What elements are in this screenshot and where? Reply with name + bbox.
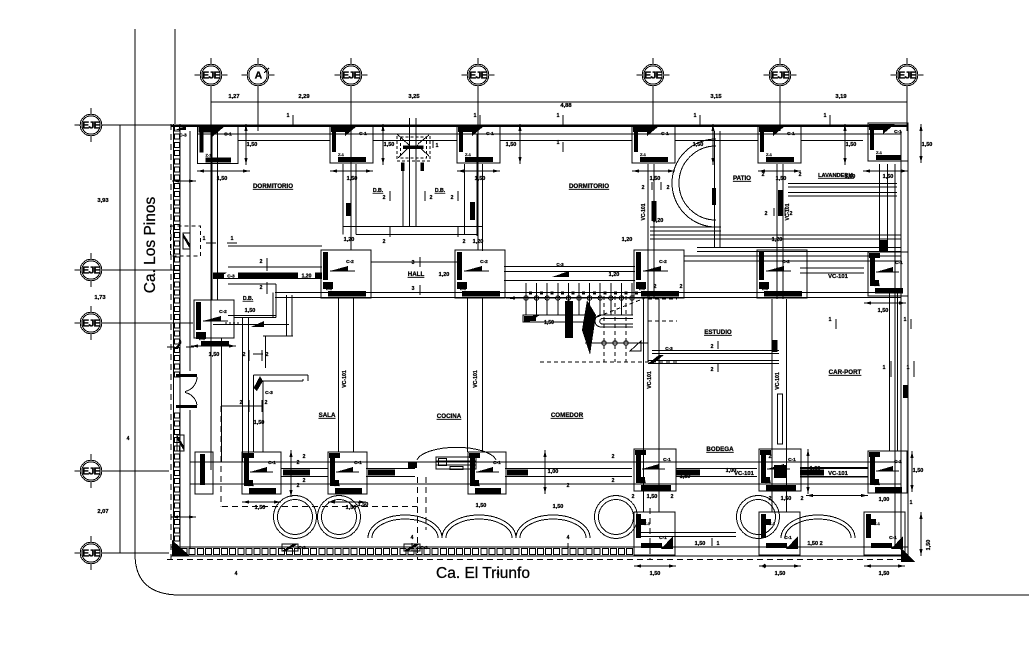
svg-text:C-3: C-3 bbox=[265, 390, 273, 396]
kitchen window arch bbox=[417, 447, 496, 460]
column C-2 hall axis 6 bbox=[757, 250, 807, 298]
svg-text:Z-1: Z-1 bbox=[465, 152, 472, 157]
column C-2 hall axis 4 bbox=[455, 250, 505, 298]
svg-text:1,50: 1,50 bbox=[879, 571, 890, 577]
svg-text:Z-1: Z-1 bbox=[874, 481, 881, 486]
patio east wall black fill bbox=[778, 190, 791, 220]
svg-text:1,50: 1,50 bbox=[926, 540, 932, 551]
stair flight side wall bbox=[523, 315, 595, 322]
column C-1 top row axis 4 bbox=[457, 125, 500, 163]
grid bubble EJE at (211,75) bbox=[195, 58, 228, 92]
svg-text:1,50: 1,50 bbox=[680, 474, 691, 480]
wall bbox=[243, 317, 249, 462]
svg-text:Ca. El Triunfo: Ca. El Triunfo bbox=[436, 565, 530, 582]
svg-text:Z-1: Z-1 bbox=[640, 152, 647, 157]
dimension line left bbox=[94, 125, 126, 553]
svg-text:1,20: 1,20 bbox=[439, 272, 450, 278]
svg-text:EJE: EJE bbox=[82, 466, 100, 478]
svg-text:Ca. Los Pinos: Ca. Los Pinos bbox=[142, 197, 159, 294]
dim 1,50 right of axis5 top column bbox=[711, 124, 714, 165]
hall north wall east of stairs bbox=[684, 255, 901, 257]
svg-text:C-1: C-1 bbox=[224, 132, 232, 138]
beam segments with fill bbox=[281, 469, 328, 477]
svg-text:VC-101: VC-101 bbox=[828, 471, 848, 477]
svg-text:2: 2 bbox=[711, 367, 714, 373]
wall bbox=[880, 164, 888, 251]
svg-text:1,50: 1,50 bbox=[254, 420, 265, 426]
svg-text:1,50: 1,50 bbox=[255, 505, 266, 511]
svg-text:1: 1 bbox=[231, 236, 234, 242]
svg-text:C-1: C-1 bbox=[661, 131, 669, 137]
tick marks left wall bbox=[167, 346, 175, 348]
dim 1,50 right of axis6 top column bbox=[843, 124, 846, 165]
svg-text:3,19: 3,19 bbox=[835, 94, 847, 100]
dim right of bodega column bbox=[806, 449, 809, 494]
svg-text:3,15: 3,15 bbox=[710, 94, 722, 100]
stair direction arrow bbox=[506, 296, 515, 299]
column C-1 bottom axis 5 bbox=[634, 449, 676, 491]
hatched block wall (bottom) bbox=[171, 547, 640, 556]
svg-text:C-1: C-1 bbox=[787, 131, 795, 137]
svg-text:VC-101: VC-101 bbox=[828, 274, 848, 280]
svg-text:2: 2 bbox=[303, 454, 306, 460]
svg-text:1,00: 1,00 bbox=[726, 468, 737, 474]
svg-text:C-2: C-2 bbox=[346, 259, 354, 265]
dim arrows bowtie at kitchen arch bbox=[408, 462, 417, 468]
left wall inner face bbox=[189, 131, 191, 371]
wall bbox=[212, 131, 218, 300]
wall bbox=[650, 227, 721, 231]
svg-text:C-3: C-3 bbox=[420, 545, 428, 550]
wall bbox=[800, 268, 864, 273]
svg-text:Z-1: Z-1 bbox=[334, 482, 341, 487]
svg-text:2: 2 bbox=[769, 454, 772, 460]
wall section mark bottom 2 bbox=[404, 544, 420, 551]
dim 1,50 right of axis1 top column bbox=[244, 124, 247, 165]
svg-text:Z-1: Z-1 bbox=[460, 286, 467, 291]
small bath room walls bbox=[213, 284, 293, 368]
corner mark bottom-right bbox=[901, 548, 915, 562]
svg-text:2,07: 2,07 bbox=[97, 509, 108, 515]
closet wall black fill below axis3 bbox=[346, 203, 351, 216]
svg-text:D.B.: D.B. bbox=[243, 296, 254, 302]
column C-1 porch east bbox=[864, 512, 905, 555]
dim 1,50 under axis7 column bbox=[863, 169, 908, 172]
dim 1,50 right edge bbox=[919, 124, 922, 163]
svg-text:4: 4 bbox=[567, 535, 570, 541]
wall pilaster at left wall bottom row bbox=[195, 452, 213, 494]
svg-text:2: 2 bbox=[383, 239, 386, 245]
svg-text:1: 1 bbox=[829, 317, 832, 323]
svg-text:EJE: EJE bbox=[82, 265, 100, 277]
svg-text:1,50: 1,50 bbox=[506, 142, 517, 148]
bottom beam band lines bbox=[190, 461, 901, 463]
wall opening marker axis6 bbox=[778, 394, 783, 444]
wall bbox=[410, 118, 417, 227]
dim 1,50 right of axis4 top column bbox=[518, 124, 521, 164]
grid bubble EJE at (351,75) bbox=[335, 58, 368, 92]
svg-text:1,73: 1,73 bbox=[94, 295, 106, 301]
door dashes small room bbox=[225, 322, 240, 324]
svg-text:SALA: SALA bbox=[319, 412, 336, 419]
svg-text:C-1: C-1 bbox=[486, 131, 494, 137]
svg-text:2: 2 bbox=[799, 172, 802, 178]
dim at scallop start bbox=[171, 515, 196, 518]
top exterior wall bbox=[171, 125, 908, 127]
stair landing edge bbox=[647, 296, 649, 362]
svg-text:2: 2 bbox=[680, 284, 683, 290]
svg-text:1,50: 1,50 bbox=[553, 504, 564, 510]
dim 1,50 under C-2 left bbox=[191, 344, 236, 347]
grid bubble EJE at (478,75) bbox=[462, 58, 495, 92]
svg-text:1,50: 1,50 bbox=[878, 308, 889, 314]
svg-text:2: 2 bbox=[567, 483, 570, 489]
svg-text:Z-1: Z-1 bbox=[640, 479, 647, 484]
dim across left wall top bbox=[172, 179, 196, 182]
kitchen counter detail bbox=[436, 457, 476, 470]
svg-text:C-1: C-1 bbox=[493, 460, 501, 466]
estudio divider wall bbox=[652, 350, 779, 352]
dashed eave corner sala bbox=[220, 406, 222, 507]
column C-1 bottom axis 6 bbox=[759, 449, 801, 491]
patio west wall segment with black fill bbox=[641, 201, 657, 221]
svg-text:Z-1: Z-1 bbox=[474, 482, 481, 487]
svg-text:1,50: 1,50 bbox=[475, 176, 486, 182]
svg-text:Z-1: Z-1 bbox=[762, 286, 769, 291]
wall axis3 vertical with VC-101 bbox=[338, 298, 340, 452]
svg-text:3,25: 3,25 bbox=[408, 94, 420, 100]
svg-text:EJE: EJE bbox=[82, 120, 100, 132]
column C-1 porch axis 6 bbox=[759, 512, 800, 555]
hall south wall full bbox=[275, 292, 901, 294]
svg-text:1: 1 bbox=[287, 113, 290, 119]
svg-text:1,50: 1,50 bbox=[775, 571, 786, 577]
svg-text:1,00: 1,00 bbox=[810, 466, 821, 472]
svg-text:LAVANDERIA: LAVANDERIA bbox=[818, 173, 854, 179]
svg-text:3: 3 bbox=[412, 286, 415, 292]
dim 1,50 under axis1 column bbox=[197, 169, 250, 172]
grid bubble EJE at (91,125) bbox=[75, 108, 108, 142]
svg-text:EJE: EJE bbox=[82, 548, 100, 560]
column C-1 hall east wall bbox=[868, 252, 908, 296]
sala planter corner wall bbox=[254, 375, 309, 452]
svg-text:2: 2 bbox=[383, 195, 386, 201]
svg-text:Z-1: Z-1 bbox=[874, 521, 881, 526]
wall section mark bottom 1 bbox=[282, 544, 298, 551]
wall bbox=[504, 267, 635, 272]
dim 1,50 under axis3-4 columns bbox=[330, 169, 373, 172]
svg-text:Z-1: Z-1 bbox=[644, 521, 651, 526]
svg-text:1: 1 bbox=[557, 140, 560, 146]
svg-text:Z-1: Z-1 bbox=[206, 153, 213, 158]
column C-1 porch axis 5 bbox=[634, 512, 675, 555]
svg-text:2: 2 bbox=[430, 195, 433, 201]
svg-text:HALL: HALL bbox=[408, 271, 425, 278]
dim 1,50 under axis6 column bbox=[758, 169, 801, 172]
wall bbox=[788, 193, 897, 197]
svg-text:1,50: 1,50 bbox=[217, 176, 228, 182]
column C-2 axis2 left bbox=[194, 300, 234, 347]
dashed eave line left bbox=[170, 124, 172, 559]
tick 1 top wall bbox=[292, 115, 294, 125]
svg-text:2: 2 bbox=[265, 400, 268, 406]
grid bubble A at (258,75) bbox=[242, 58, 275, 92]
svg-text:2: 2 bbox=[303, 478, 306, 484]
wall bbox=[890, 292, 898, 451]
svg-text:C-2: C-2 bbox=[659, 259, 667, 265]
dim arrowhead at left wall bbox=[174, 340, 182, 349]
stair handrail U-turn bbox=[595, 315, 633, 327]
svg-text:2: 2 bbox=[451, 195, 454, 201]
garden scallop border bbox=[274, 496, 317, 539]
bathroom bottom wall bbox=[343, 226, 482, 228]
svg-text:1: 1 bbox=[474, 113, 477, 119]
svg-text:C-3: C-3 bbox=[665, 346, 673, 351]
svg-text:1: 1 bbox=[883, 365, 886, 371]
svg-text:1: 1 bbox=[203, 236, 206, 242]
svg-text:EJE: EJE bbox=[771, 70, 789, 82]
svg-text:CAR-PORT: CAR-PORT bbox=[829, 369, 862, 376]
right wall inner line bbox=[894, 164, 896, 548]
grid line horizontal stems bbox=[103, 124, 198, 126]
bottom wall right part bbox=[640, 546, 908, 548]
svg-text:EJE: EJE bbox=[82, 318, 100, 330]
svg-text:A: A bbox=[255, 70, 263, 82]
svg-text:1: 1 bbox=[824, 113, 827, 119]
bathroom east wall bbox=[464, 164, 466, 235]
svg-text:VC-101: VC-101 bbox=[775, 372, 781, 390]
stair cut mark black bars bbox=[565, 301, 573, 338]
patio arc wall (curved) bbox=[672, 139, 716, 227]
stair baluster circles bbox=[506, 296, 648, 300]
svg-text:EJE: EJE bbox=[342, 70, 360, 82]
dim vertical at bottom cols bbox=[289, 450, 292, 497]
dim ticks bathroom bbox=[389, 191, 391, 201]
svg-text:1: 1 bbox=[907, 365, 910, 371]
grid bubble EJE at (780,75) bbox=[764, 58, 797, 92]
dims under porch columns bbox=[634, 564, 676, 567]
column C-1 top row axis 3 bbox=[330, 125, 373, 163]
wall section mark left lower bbox=[177, 435, 184, 451]
stair open triangle bbox=[630, 341, 641, 351]
svg-text:D.B.: D.B. bbox=[435, 188, 446, 194]
svg-text:1,20: 1,20 bbox=[473, 239, 484, 245]
svg-text:2: 2 bbox=[762, 172, 765, 178]
dim 1,50 right of axis3 top column bbox=[381, 124, 384, 165]
svg-text:VC-101: VC-101 bbox=[641, 203, 647, 220]
svg-text:C-1: C-1 bbox=[663, 457, 671, 463]
svg-text:2: 2 bbox=[297, 483, 300, 489]
column C-1 bottom axis A bbox=[242, 452, 281, 494]
svg-text:1,50: 1,50 bbox=[913, 468, 924, 474]
svg-text:DORMITORIO: DORMITORIO bbox=[253, 183, 293, 190]
svg-text:C-1: C-1 bbox=[268, 460, 276, 466]
wall bbox=[697, 248, 901, 252]
svg-text:2: 2 bbox=[266, 352, 269, 358]
hall north wall between axis3-4 bbox=[371, 261, 457, 263]
entrance double door arcs bbox=[185, 377, 197, 392]
svg-text:C-3: C-3 bbox=[227, 274, 235, 279]
svg-text:2: 2 bbox=[612, 454, 615, 460]
svg-text:Z-1: Z-1 bbox=[248, 482, 255, 487]
svg-text:VC-101: VC-101 bbox=[734, 471, 754, 477]
svg-text:VC-101: VC-101 bbox=[342, 370, 348, 388]
wall bbox=[777, 164, 783, 299]
svg-text:1: 1 bbox=[557, 113, 560, 119]
svg-text:Z-1: Z-1 bbox=[766, 152, 773, 157]
svg-text:4: 4 bbox=[497, 571, 500, 577]
stair lower circles bbox=[585, 341, 648, 345]
svg-text:1,50: 1,50 bbox=[476, 503, 487, 509]
svg-text:2: 2 bbox=[790, 211, 793, 217]
svg-text:2: 2 bbox=[632, 494, 635, 500]
entrance double door jambs bbox=[176, 374, 197, 377]
dim right edge lower bbox=[919, 512, 922, 556]
dimension line top bbox=[211, 94, 907, 109]
wall section mark left upper bbox=[183, 233, 190, 249]
svg-text:3,93: 3,93 bbox=[97, 198, 109, 204]
svg-text:1,50: 1,50 bbox=[247, 142, 258, 148]
corner wall mark C-3 bbox=[175, 126, 186, 130]
top wall sill lines between columns bbox=[238, 140, 330, 142]
svg-text:2: 2 bbox=[240, 400, 243, 406]
svg-text:C-1: C-1 bbox=[788, 457, 796, 463]
svg-text:VC-101: VC-101 bbox=[473, 370, 479, 388]
svg-text:3: 3 bbox=[412, 260, 415, 266]
column C-1 bottom axis 3 bbox=[328, 452, 367, 494]
svg-text:1,50: 1,50 bbox=[922, 142, 933, 148]
svg-text:4: 4 bbox=[127, 436, 130, 442]
grid line axis A vertical stems bbox=[210, 87, 212, 470]
right exterior wall bbox=[900, 131, 902, 550]
column C-2 hall axis 3 bbox=[321, 250, 371, 298]
grid bubble EJE at (91,553) bbox=[75, 536, 108, 570]
svg-text:1,50: 1,50 bbox=[245, 308, 256, 314]
svg-text:1,50: 1,50 bbox=[209, 352, 220, 358]
wall bbox=[650, 235, 901, 239]
door flag mark small room bbox=[251, 321, 264, 327]
street corner curve bbox=[135, 554, 180, 595]
svg-text:C-3: C-3 bbox=[556, 262, 564, 267]
corner mark bottom-left bbox=[172, 540, 190, 556]
svg-text:1,50: 1,50 bbox=[544, 320, 554, 326]
svg-text:2: 2 bbox=[642, 185, 645, 191]
stair beam arrow mark bbox=[552, 271, 569, 277]
svg-text:1: 1 bbox=[436, 143, 439, 149]
wall bbox=[788, 184, 897, 188]
svg-text:C-2: C-2 bbox=[219, 309, 227, 315]
svg-text:1: 1 bbox=[694, 113, 697, 119]
svg-text:1,50 2: 1,50 2 bbox=[807, 541, 822, 547]
duct box with hatch bbox=[397, 134, 439, 171]
svg-text:1,20: 1,20 bbox=[609, 272, 620, 278]
svg-text:C-1: C-1 bbox=[359, 131, 367, 137]
wall axis4 vertical with VC-101 bbox=[467, 298, 469, 452]
svg-text:PATIO: PATIO bbox=[733, 175, 751, 182]
dashed eave line bottom bbox=[167, 559, 908, 561]
svg-text:Z-1: Z-1 bbox=[199, 336, 206, 341]
svg-text:2: 2 bbox=[801, 496, 804, 502]
svg-text:Z-1: Z-1 bbox=[326, 286, 333, 291]
svg-text:Z-1: Z-1 bbox=[876, 150, 883, 155]
svg-text:1,00: 1,00 bbox=[548, 469, 559, 475]
svg-text:2: 2 bbox=[765, 211, 768, 217]
svg-text:EJE: EJE bbox=[202, 70, 220, 82]
grid bubble EJE at (91,471) bbox=[75, 454, 108, 488]
svg-text:C-1: C-1 bbox=[895, 260, 903, 266]
svg-text:EJE: EJE bbox=[898, 70, 916, 82]
svg-text:C-2: C-2 bbox=[480, 259, 488, 265]
svg-text:1,50: 1,50 bbox=[846, 142, 857, 148]
grid bubble EJE at (91,323) bbox=[75, 306, 108, 340]
svg-text:1,27: 1,27 bbox=[228, 94, 239, 100]
svg-text:2: 2 bbox=[463, 239, 466, 245]
svg-text:Z-1: Z-1 bbox=[874, 282, 881, 287]
svg-text:VC-101: VC-101 bbox=[647, 371, 653, 389]
column C-1 top row axis 5 bbox=[632, 125, 675, 163]
svg-text:1,50: 1,50 bbox=[781, 496, 792, 502]
svg-text:1,50: 1,50 bbox=[650, 571, 661, 577]
svg-text:1,00: 1,00 bbox=[879, 497, 890, 503]
svg-text:1,50: 1,50 bbox=[650, 176, 661, 182]
svg-text:D.B.: D.B. bbox=[373, 188, 384, 194]
svg-text:COMEDOR: COMEDOR bbox=[551, 412, 584, 419]
wall bbox=[800, 468, 868, 478]
svg-text:COCINA: COCINA bbox=[437, 413, 462, 420]
svg-text:DORMITORIO: DORMITORIO bbox=[569, 183, 609, 190]
svg-text:ESTUDIO: ESTUDIO bbox=[704, 329, 732, 336]
svg-text:1,50: 1,50 bbox=[358, 502, 369, 508]
svg-text:Z-1: Z-1 bbox=[338, 152, 345, 157]
svg-text:2,29: 2,29 bbox=[298, 94, 310, 100]
svg-text:4,88: 4,88 bbox=[560, 103, 572, 109]
bathroom west wall bbox=[342, 164, 344, 235]
tick 1 carport bbox=[835, 319, 837, 329]
svg-text:1: 1 bbox=[910, 500, 913, 506]
column C-1 top row axis 1 bbox=[198, 126, 239, 164]
svg-text:4: 4 bbox=[235, 571, 238, 577]
dim 1,50 under axis5 column bbox=[632, 169, 675, 172]
svg-text:C-1: C-1 bbox=[889, 535, 897, 541]
grid bubble EJE at (907,75) bbox=[891, 58, 924, 92]
svg-text:4: 4 bbox=[179, 340, 182, 346]
closet wall black fill below axis4 bbox=[470, 202, 475, 220]
svg-text:C-3: C-3 bbox=[298, 545, 306, 550]
svg-text:2: 2 bbox=[243, 352, 246, 358]
property line upper left bbox=[174, 29, 176, 124]
street line Ca. El Triunfo (horizontal road edge) bbox=[180, 594, 1029, 596]
beam section square at bodega column bbox=[774, 465, 786, 478]
wall bbox=[648, 164, 654, 299]
stair treads bbox=[526, 283, 638, 315]
svg-text:1,20: 1,20 bbox=[622, 237, 633, 243]
column C-1 top row axis 6 bbox=[758, 125, 801, 163]
svg-text:EJE: EJE bbox=[644, 70, 662, 82]
svg-text:1,50: 1,50 bbox=[695, 541, 706, 547]
svg-text:C-1: C-1 bbox=[354, 460, 362, 466]
dashed eave at comedor bbox=[649, 508, 651, 559]
svg-text:4: 4 bbox=[763, 564, 766, 570]
svg-text:Z-1: Z-1 bbox=[765, 479, 772, 484]
svg-text:1: 1 bbox=[904, 317, 907, 323]
grid bubble EJE at (653,75) bbox=[637, 58, 670, 92]
svg-text:1,20: 1,20 bbox=[344, 237, 355, 243]
svg-text:4: 4 bbox=[411, 535, 414, 541]
svg-text:2: 2 bbox=[297, 460, 300, 466]
svg-text:2: 2 bbox=[612, 478, 615, 484]
tick marks sala wall bbox=[253, 353, 263, 355]
svg-text:2: 2 bbox=[671, 494, 674, 500]
